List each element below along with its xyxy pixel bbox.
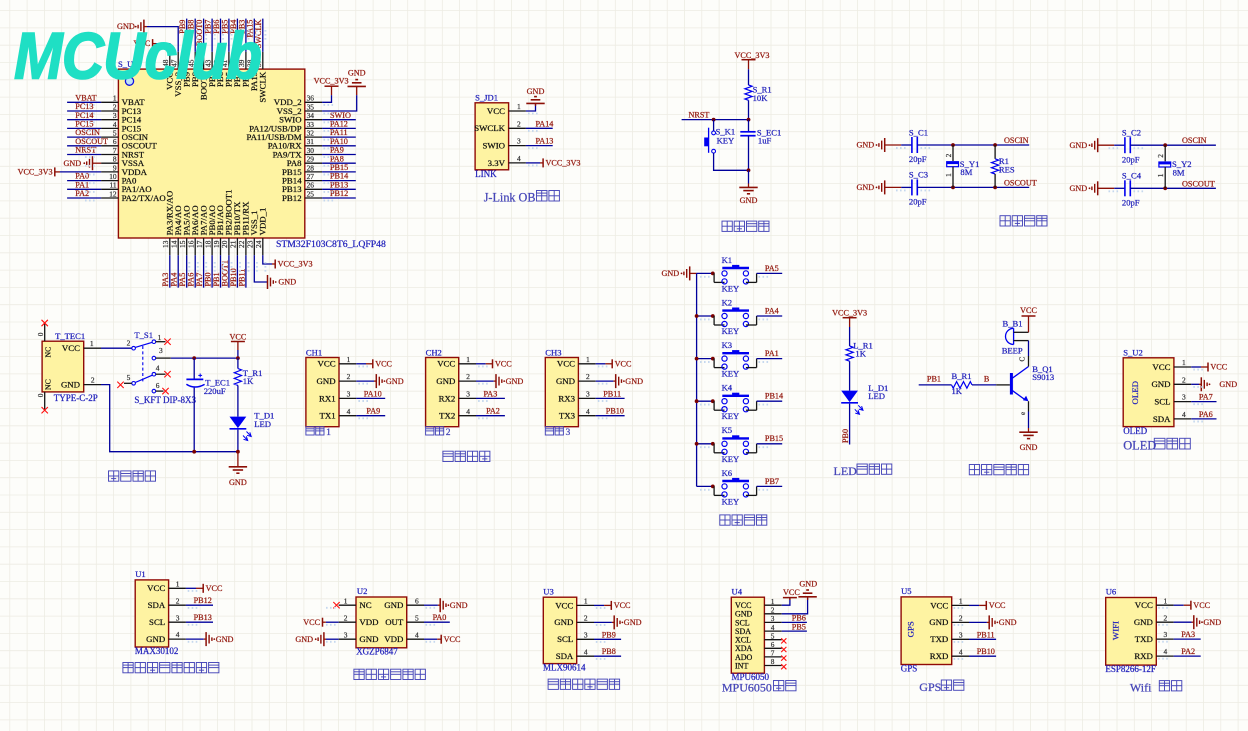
- ground at CH1: [374, 374, 404, 388]
- svg-text:PC15: PC15: [75, 120, 93, 129]
- wire R1 to LED: [849, 361, 851, 390]
- pin 4 VDD of U2: [384, 630, 424, 644]
- svg-text:PA6: PA6: [1199, 410, 1213, 419]
- transistor B_Q1: [996, 356, 1054, 415]
- pin 4 TX3 of CH3: [559, 407, 596, 421]
- no-connect X at U4 pin7: [781, 656, 786, 661]
- power VCC_3V3 at S_JD1 pin 4: [540, 158, 581, 167]
- svg-text:TX1: TX1: [319, 411, 335, 421]
- svg-text:TXD: TXD: [1135, 634, 1153, 644]
- wire pin1 VCC: [356, 363, 366, 365]
- svg-text:GND: GND: [506, 377, 524, 386]
- power VCC at U2 pin2: [303, 618, 326, 627]
- svg-text:1: 1: [1156, 173, 1165, 177]
- pin 13 PA3/RX/AO (bottom): [161, 191, 174, 256]
- svg-text:VCC: VCC: [147, 583, 165, 593]
- svg-text:K4: K4: [722, 383, 733, 393]
- svg-text:KEY: KEY: [722, 411, 740, 421]
- pin 21 PB10/TX (bottom): [229, 201, 242, 255]
- resistor T_R1: [234, 358, 262, 386]
- svg-text:GND: GND: [436, 376, 455, 386]
- svg-text:GND: GND: [63, 159, 81, 168]
- svg-text:1: 1: [944, 173, 953, 177]
- junction cap top: [192, 356, 196, 360]
- switch link dashed: [142, 346, 144, 383]
- net label PA7: [195, 273, 204, 287]
- pin 4 3.3V of S_JD1: [488, 154, 526, 168]
- wire net PA5: [186, 255, 188, 287]
- pin 7 ADO of U4: [735, 650, 782, 662]
- svg-text:VCC: VCC: [229, 332, 246, 341]
- caption chuankoudianlu: [443, 451, 490, 461]
- net label OSCOUT: [1004, 178, 1037, 187]
- wire net PA6: [1191, 418, 1216, 420]
- svg-text:VCC: VCC: [303, 618, 320, 627]
- wire net PA7: [203, 255, 205, 287]
- svg-text:VCC_3V3: VCC_3V3: [278, 260, 313, 269]
- wire GND rail: [101, 385, 238, 452]
- svg-text:VCC: VCC: [1020, 306, 1037, 315]
- junction VCC rail: [236, 356, 240, 360]
- no-connect X at U4 pin6: [781, 647, 786, 652]
- net label PB10: [977, 647, 995, 656]
- svg-text:PA0: PA0: [433, 613, 447, 622]
- module U6 body: [1106, 598, 1157, 666]
- net label B: [984, 374, 990, 383]
- svg-text:2: 2: [446, 427, 451, 438]
- net label BOOT0: [195, 20, 204, 46]
- svg-text:GND: GND: [856, 141, 874, 150]
- ground at S_JD1 pin 1: [526, 87, 544, 106]
- net label SWIO: [330, 111, 351, 120]
- svg-text:VCC: VCC: [375, 360, 392, 369]
- connector S_JD1 body: [475, 103, 509, 170]
- caption Wifi-mod: [1130, 680, 1182, 694]
- wire net PB4: [236, 19, 238, 52]
- svg-text:SCL: SCL: [735, 618, 750, 627]
- connector T_TEC1 body: [42, 341, 84, 392]
- svg-text:SDA: SDA: [1153, 414, 1171, 424]
- net label PA15: [246, 20, 255, 38]
- net label PB11: [977, 630, 995, 639]
- svg-text:2: 2: [176, 596, 180, 605]
- net label PB13: [330, 180, 348, 189]
- pin 46 PB9 (top): [178, 52, 191, 87]
- net label PC14: [75, 111, 93, 120]
- net label PA2: [1181, 647, 1195, 656]
- pin 8 VSSA (left): [101, 155, 145, 169]
- svg-text:1K: 1K: [952, 386, 963, 396]
- wire pin1 VCC: [1174, 604, 1184, 606]
- pin 2 GND of U5: [929, 614, 969, 628]
- wire net NRST: [682, 119, 749, 121]
- net label PB0: [841, 429, 850, 443]
- caption chuankou2: [426, 427, 451, 438]
- svg-text:S_JD1: S_JD1: [475, 93, 498, 103]
- svg-text:LED: LED: [868, 391, 885, 401]
- caption OLED-xianshiping: [1123, 438, 1190, 452]
- pin 2 SDA of U1: [148, 596, 186, 610]
- svg-text:GND: GND: [999, 618, 1017, 627]
- svg-text:S9013: S9013: [1032, 372, 1054, 382]
- svg-text:2: 2: [466, 372, 470, 381]
- wire pin2 GND: [476, 380, 494, 382]
- svg-text:28: 28: [307, 163, 315, 172]
- led L_D1: [841, 383, 888, 414]
- pin 6 OSCOUT (left): [101, 137, 157, 151]
- svg-text:OSCOUT: OSCOUT: [75, 137, 108, 146]
- svg-text:6: 6: [771, 641, 775, 649]
- svg-text:GND: GND: [554, 617, 573, 627]
- wire to L_R1: [849, 327, 851, 346]
- svg-text:3: 3: [566, 427, 571, 438]
- svg-text:B_B1: B_B1: [1003, 319, 1023, 329]
- wire U2 pin3 GND: [326, 638, 339, 640]
- wire to GND: [748, 170, 750, 183]
- svg-text:TX3: TX3: [559, 411, 576, 421]
- ground at pin 35: [348, 69, 366, 96]
- wire net SWCLK: [262, 19, 264, 52]
- svg-text:SWIO: SWIO: [483, 141, 505, 151]
- svg-text:U6: U6: [1106, 587, 1117, 597]
- wire net PB10: [596, 415, 625, 417]
- wire U4 pin1 to VCC: [782, 598, 790, 605]
- net label PB10: [606, 407, 624, 416]
- svg-text:GND: GND: [624, 618, 642, 627]
- net label PA9: [330, 146, 344, 155]
- pin 15 PA5/AO (bottom): [178, 205, 191, 255]
- svg-text:36: 36: [307, 94, 315, 103]
- wire net PA1: [757, 358, 783, 360]
- junction K6 left: [711, 485, 715, 489]
- net label PA10: [330, 137, 348, 146]
- net label PB5: [220, 20, 229, 34]
- svg-text:T_S1: T_S1: [134, 330, 153, 340]
- pin name NC top: [44, 347, 53, 358]
- wire OSCOUT row: [917, 186, 1029, 188]
- net label PA7: [1199, 393, 1213, 402]
- svg-text:TYPE-C-2P: TYPE-C-2P: [54, 393, 98, 403]
- svg-text:TXD: TXD: [930, 634, 948, 644]
- capacitor S_C4: [1122, 171, 1142, 208]
- svg-text:J-Link OB: J-Link OB: [484, 191, 536, 205]
- svg-text:U3: U3: [543, 586, 554, 596]
- junction K4 left: [711, 399, 715, 403]
- svg-text:33: 33: [307, 120, 315, 129]
- svg-text:3.3V: 3.3V: [488, 158, 506, 168]
- svg-text:10: 10: [109, 172, 117, 181]
- svg-text:GND: GND: [146, 634, 165, 644]
- junction K5 left: [711, 442, 715, 446]
- svg-text:PA2: PA2: [1181, 647, 1195, 656]
- svg-text:1: 1: [959, 597, 963, 606]
- junction resistor bottom: [993, 186, 997, 190]
- svg-text:PB6: PB6: [792, 614, 806, 623]
- net label PB0: [204, 272, 213, 286]
- caption jingzhendianlu: [1000, 216, 1047, 226]
- ground S_C1 row OSCIN: [856, 138, 901, 152]
- svg-text:8M: 8M: [1173, 167, 1185, 177]
- svg-text:1: 1: [158, 333, 162, 342]
- pin 1 VCC of U4: [735, 598, 782, 610]
- net label PB11: [603, 389, 621, 398]
- pin 3 SCL of S_U2: [1154, 393, 1191, 407]
- wire net PB0: [211, 255, 213, 287]
- pin 16 PA6/AO (bottom): [187, 205, 200, 255]
- junction crystal bottom: [1163, 186, 1167, 190]
- power VCC at CH3: [605, 359, 632, 368]
- svg-text:20pF: 20pF: [1122, 198, 1140, 208]
- svg-text:GPS: GPS: [906, 621, 916, 637]
- ground at U4: [798, 579, 817, 600]
- key K6: [714, 468, 757, 507]
- svg-text:GND: GND: [856, 183, 874, 192]
- svg-text:CH1: CH1: [306, 347, 322, 357]
- svg-text:VBAT: VBAT: [75, 93, 96, 102]
- svg-text:2: 2: [91, 376, 95, 385]
- svg-text:3: 3: [344, 630, 348, 639]
- pin 4 SDA of U4: [735, 624, 782, 636]
- key K3: [714, 340, 757, 379]
- pin 25 PB12 (right): [282, 189, 322, 203]
- ground S_C3 row OSCOUT: [856, 180, 901, 194]
- svg-text:PA10: PA10: [364, 389, 382, 398]
- svg-text:1: 1: [113, 94, 117, 103]
- pin 33 PA12/USB/DP (right): [249, 120, 322, 134]
- wire R1 to NRST node: [748, 100, 750, 119]
- wire net PB15: [757, 443, 783, 445]
- svg-text:GND: GND: [556, 376, 575, 386]
- svg-text:GND: GND: [384, 600, 403, 610]
- pin 3 TXD of U5: [930, 630, 969, 644]
- wire OSCIN row: [917, 144, 1029, 146]
- junction cap bottom: [747, 168, 751, 172]
- svg-text:WIFI: WIFI: [1110, 621, 1120, 640]
- wire net PA8: [322, 162, 356, 164]
- crystal S_Y1: [944, 145, 979, 187]
- pin 23 VSS_1 (bottom): [246, 210, 259, 255]
- svg-text:VCC: VCC: [615, 360, 632, 369]
- junction crystal top: [951, 143, 955, 147]
- caption LED-dengdianlu: [834, 464, 892, 478]
- svg-text:25: 25: [307, 189, 315, 198]
- wire pin2 GND: [356, 380, 374, 382]
- svg-text:GND: GND: [661, 269, 679, 278]
- power VCC at U5 pin1: [979, 601, 1006, 610]
- wire pin3 to VCC rail: [171, 357, 238, 359]
- svg-text:7: 7: [113, 146, 117, 155]
- svg-text:PB12: PB12: [194, 596, 212, 605]
- wire net PB6: [220, 19, 222, 52]
- svg-text:OSCIN: OSCIN: [75, 128, 100, 137]
- net label PA6: [1199, 410, 1213, 419]
- svg-text:1: 1: [586, 355, 590, 364]
- svg-text:U4: U4: [732, 586, 743, 596]
- power VCC at U6 pin1: [1184, 601, 1211, 610]
- pin 2 PC13 (left): [101, 102, 142, 116]
- wire net PA14: [526, 127, 553, 129]
- svg-text:7: 7: [771, 650, 775, 658]
- svg-text:GND: GND: [1151, 379, 1170, 389]
- svg-text:3: 3: [466, 390, 470, 399]
- svg-text:SCL: SCL: [149, 617, 165, 627]
- pin 41 PB5 (top): [220, 52, 233, 87]
- wire net PB9: [594, 638, 621, 640]
- svg-text:SDA: SDA: [556, 651, 574, 661]
- wire net PA5: [757, 272, 783, 274]
- svg-text:K6: K6: [722, 468, 733, 478]
- svg-text:GND: GND: [317, 376, 336, 386]
- svg-text:OSCOUT: OSCOUT: [1004, 178, 1037, 187]
- svg-text:GND: GND: [216, 635, 234, 644]
- wire pin2 GND: [596, 380, 614, 382]
- net label PA13: [536, 137, 554, 146]
- wire pin2 GND: [594, 621, 612, 623]
- svg-text:GND: GND: [278, 278, 296, 287]
- wire net SWIO: [322, 119, 356, 121]
- power VCC at pin 48: [134, 39, 156, 48]
- capacitor T_EC1: [186, 358, 230, 452]
- display S_U2 body: [1123, 358, 1174, 427]
- svg-text:RXD: RXD: [930, 651, 949, 661]
- svg-text:GND: GND: [1020, 443, 1038, 452]
- pin 44 BOOT0 (top): [195, 52, 208, 100]
- svg-text:PB7: PB7: [765, 477, 779, 486]
- net label OSCIN: [75, 128, 100, 137]
- wire net PA4: [177, 255, 179, 287]
- wire VSS_1 to GND: [254, 255, 267, 282]
- svg-text:1: 1: [1164, 596, 1168, 605]
- pin 9 VDDA (left): [101, 163, 148, 177]
- svg-text:PA3: PA3: [484, 389, 498, 398]
- pin 2 SWCLK of S_JD1: [474, 119, 526, 133]
- junction crystal top: [1163, 143, 1167, 147]
- wire net PB11: [969, 638, 996, 640]
- svg-text:PB1: PB1: [927, 374, 941, 383]
- svg-text:GND: GND: [625, 377, 643, 386]
- pin 2 GND of CH2: [436, 372, 476, 386]
- svg-text:2: 2: [347, 372, 351, 381]
- ground of buzzer: [1019, 428, 1037, 452]
- net label PB15: [765, 434, 783, 443]
- pin 35 VSS_2 (right): [277, 102, 322, 116]
- pin 3 SWIO of S_JD1: [483, 137, 526, 151]
- pin 48 VCC (top): [161, 52, 174, 90]
- svg-text:1: 1: [344, 596, 348, 605]
- junction resistor top: [993, 143, 997, 147]
- svg-text:3: 3: [584, 630, 588, 639]
- pin 28 PB15 (right): [282, 163, 322, 177]
- wire U2 pin6 GND: [424, 604, 438, 606]
- op-amp U1 MCU body STM32F103C8T6: [118, 69, 304, 238]
- svg-text:VCC_3V3: VCC_3V3: [546, 159, 581, 168]
- power VCC_3V3 at pin 36: [314, 77, 349, 96]
- ground at U5 pin2: [987, 615, 1017, 629]
- pin 2 GND of U4: [735, 607, 782, 619]
- pin 40 PB4 (top): [229, 52, 242, 87]
- svg-text:PB9: PB9: [602, 630, 616, 639]
- pin 5 OSCIN (left): [101, 129, 149, 143]
- svg-text:S_KFT DIP-8X3: S_KFT DIP-8X3: [134, 395, 196, 405]
- svg-text:VCC_3V3: VCC_3V3: [734, 51, 769, 60]
- wire pin4 to VCC_3V3: [526, 162, 540, 164]
- key K4: [714, 383, 757, 422]
- junction K3 left: [711, 357, 715, 361]
- svg-text:PA1: PA1: [765, 349, 779, 358]
- buzzer B_B1: [1002, 319, 1029, 356]
- svg-text:11: 11: [109, 181, 116, 190]
- wire to S_C3: [901, 186, 912, 188]
- svg-text:PB12: PB12: [330, 189, 348, 198]
- junction crystal bottom: [951, 186, 955, 190]
- svg-text:RX3: RX3: [558, 393, 575, 403]
- net label PB10: [229, 268, 238, 286]
- wire net PC14: [67, 119, 101, 121]
- wire net PB9: [186, 19, 188, 52]
- wire U2 pin2 VCC: [326, 621, 339, 623]
- pin 2 GND of T_TEC1: [61, 376, 101, 390]
- pin 30 PA9/TX (right): [273, 146, 323, 160]
- pin 7 NRST (left): [101, 146, 145, 160]
- no-connect X at U2 pin1: [333, 602, 339, 608]
- wire net PA3: [1174, 638, 1201, 640]
- svg-text:PB15: PB15: [765, 434, 783, 443]
- svg-text:VDD: VDD: [359, 617, 378, 627]
- wire pin1 VCC: [594, 604, 604, 606]
- wire net PA9: [356, 415, 385, 417]
- pin 10 PA0 (left): [101, 172, 137, 186]
- svg-text:1: 1: [771, 598, 775, 606]
- pin 11 PA1/AO (left): [101, 181, 152, 195]
- svg-text:GND: GND: [799, 579, 817, 588]
- ground at U2 pin3: [295, 632, 326, 646]
- svg-text:2: 2: [113, 102, 117, 111]
- svg-text:PA0: PA0: [75, 172, 89, 181]
- wire pin2 GND: [1191, 383, 1199, 385]
- wire net PB1: [919, 384, 952, 386]
- net label PA2: [486, 407, 500, 416]
- pin 2 GND of CH1: [317, 372, 357, 386]
- svg-text:PA11: PA11: [330, 128, 348, 137]
- wire net PA11: [322, 136, 356, 138]
- wire net BOOT1: [228, 255, 230, 287]
- wire net PC15: [67, 127, 101, 129]
- svg-text:U1: U1: [135, 569, 146, 579]
- svg-text:1K: 1K: [243, 376, 254, 386]
- power VCC at U1 pin1: [196, 584, 223, 593]
- ground S_C4 row OSCOUT: [1069, 181, 1114, 195]
- svg-text:OLED: OLED: [1123, 439, 1156, 453]
- svg-text:RES: RES: [999, 164, 1015, 174]
- net label NRST: [689, 110, 710, 119]
- wire OSCIN row: [1130, 144, 1216, 146]
- wire net OSCIN: [67, 136, 101, 138]
- pin 4 PC15 (left): [101, 120, 142, 134]
- svg-text:PB8: PB8: [602, 647, 616, 656]
- svg-text:PA2/TX/AO: PA2/TX/AO: [122, 193, 166, 203]
- wire net PA2: [476, 415, 505, 417]
- pin 3 SCL of U1: [149, 613, 186, 627]
- junction rail K4: [695, 399, 699, 403]
- power VCC_3V3 at pin 9: [18, 167, 102, 176]
- svg-text:32: 32: [307, 129, 315, 138]
- pin 37 SWCLK (top): [254, 52, 267, 103]
- svg-text:OSCOUT: OSCOUT: [1182, 179, 1215, 188]
- caption fengmingqidianlu: [969, 465, 1028, 475]
- svg-text:GND: GND: [929, 617, 948, 627]
- wire net PB14: [322, 180, 356, 182]
- svg-text:GND: GND: [359, 634, 378, 644]
